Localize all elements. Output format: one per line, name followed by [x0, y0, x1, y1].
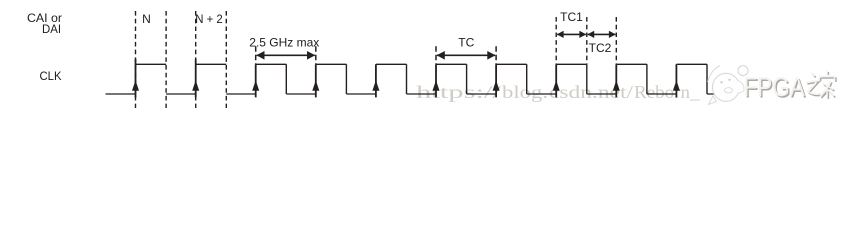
svg-text:N + 2: N + 2	[195, 12, 223, 26]
svg-text:N: N	[142, 12, 151, 26]
logo beak	[725, 88, 733, 93]
logo right wing	[738, 81, 744, 93]
dimension end ticks	[256, 46, 496, 64]
svg-text:FPGA: FPGA	[744, 73, 806, 102]
wire CLK waveform horizontals	[106, 64, 717, 94]
rising edge arrowheads	[132, 81, 679, 90]
dashed lines N / N+2	[136, 11, 227, 108]
node CLK-waveform background: white	[0, 0, 860, 124]
svg-text:TC1: TC1	[560, 10, 583, 24]
svg-text:2.5 GHz max: 2.5 GHz max	[249, 36, 319, 50]
svg-text:TC2: TC2	[589, 41, 612, 55]
logo top-right circle	[738, 66, 748, 76]
dimension arrow lines	[257, 34, 616, 55]
dimension arrow heads	[256, 31, 615, 60]
svg-text:csdn.net/: csdn.net/	[549, 82, 633, 102]
logo head	[713, 73, 740, 101]
svg-text:DAI: DAI	[42, 22, 61, 36]
hanzi 之家 light	[806, 71, 835, 98]
logo sprout curve	[708, 66, 721, 83]
logo eyes	[720, 81, 722, 83]
svg-text:Reborn_: Reborn_	[634, 82, 701, 102]
svg-text:CLK: CLK	[40, 69, 62, 83]
hanzi 之家 shadow	[807, 72, 836, 99]
svg-text:blog.: blog.	[502, 82, 548, 102]
svg-text:TC: TC	[458, 36, 474, 50]
dashed lines TC1 / TC2	[556, 17, 616, 64]
svg-text:https://: https://	[416, 82, 501, 102]
wire CLK falling edges	[286, 64, 707, 94]
wire CLK rising edges	[136, 59, 677, 97]
logo tail	[709, 96, 717, 105]
